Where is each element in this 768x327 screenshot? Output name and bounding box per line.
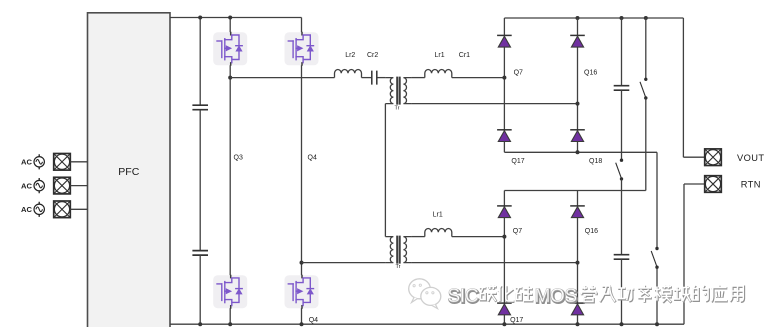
svg-text:VOUT: VOUT xyxy=(737,153,764,163)
capacitor C1 xyxy=(192,105,208,110)
wire VOUT column xyxy=(682,18,684,157)
node S3 x bus xyxy=(655,322,659,326)
svg-text:RTN: RTN xyxy=(741,180,761,190)
inductor Lr1 (upper) xyxy=(425,70,452,78)
connector VOUT xyxy=(705,149,722,166)
wire switch col upper xyxy=(645,18,647,79)
wire bridge2 left column xyxy=(503,191,505,325)
AC source V2 xyxy=(34,178,44,193)
wire bottom bus / RTN rail xyxy=(170,323,684,325)
svg-text:SIC: SIC xyxy=(448,286,479,307)
transformer Tr (lower) xyxy=(385,236,411,264)
wire to VOUT connector xyxy=(683,156,704,158)
wire right leg upper xyxy=(301,18,303,33)
svg-text:Cr1: Cr1 xyxy=(459,52,470,59)
node rail1 x cap col xyxy=(620,16,624,20)
transistor Q2 (top-right MOSFET) xyxy=(285,32,319,66)
svg-text:Q18: Q18 xyxy=(589,158,602,165)
inductor Lr2 xyxy=(335,70,362,78)
svg-text:Q3: Q3 xyxy=(234,155,243,162)
wire J3 to PFC xyxy=(70,208,87,210)
switch S1 xyxy=(640,78,648,100)
node right leg bottom xyxy=(300,322,304,326)
node bus cap bottom xyxy=(198,322,202,326)
connector J2 xyxy=(54,177,71,194)
wire left leg mid to Lr2 xyxy=(230,77,334,79)
wire J1 to PFC xyxy=(70,161,87,163)
wire top DC bus xyxy=(170,17,302,19)
diode Q17 xyxy=(497,130,512,142)
svg-text:Q7: Q7 xyxy=(513,228,522,235)
wire right leg lower xyxy=(301,308,303,324)
wire Tr1 primary to Tr2 primary xyxy=(384,104,386,237)
connector J3 xyxy=(54,201,71,218)
AC source V3 xyxy=(34,202,44,217)
svg-text:Tr: Tr xyxy=(395,105,400,111)
svg-text:Q4: Q4 xyxy=(309,317,318,324)
svg-text:MOS: MOS xyxy=(535,286,577,307)
svg-text:Q7: Q7 xyxy=(514,69,523,76)
svg-text:AC: AC xyxy=(21,158,32,167)
wire cap col mid xyxy=(621,90,623,160)
capacitor C2 xyxy=(192,251,208,256)
wire bridge1 rail to S3 xyxy=(656,152,658,248)
svg-text:PFC: PFC xyxy=(118,166,139,178)
wire Tr2 sec bottom to bridge2 xyxy=(411,262,577,264)
wire right leg mid to Tr2 primary bottom xyxy=(302,262,386,264)
wire Lr1 lower to bridge2 xyxy=(452,236,505,238)
wire bridge2 top rail xyxy=(504,190,645,192)
diode Q7 (lower) xyxy=(497,206,512,218)
wire left leg upper xyxy=(229,18,231,33)
transistor Q4 (bottom-right MOSFET) xyxy=(285,275,319,309)
inductor Lr1 (lower) xyxy=(425,229,452,237)
capacitor C4 (bridge2 output) xyxy=(614,255,630,260)
PFC block U1 xyxy=(88,13,171,327)
diode Q18 xyxy=(570,130,585,142)
diode Q18 (lower) xyxy=(570,303,585,315)
wire bridge1 top rail xyxy=(504,17,683,19)
node bus cap top xyxy=(198,16,202,20)
wire right leg middle xyxy=(301,65,303,275)
watermark text: CJK hand-drawn glyphs xyxy=(480,286,744,303)
wire bridge1 left column xyxy=(503,18,505,152)
node bridge2 left x bus xyxy=(502,322,506,326)
svg-text:Lr1: Lr1 xyxy=(433,211,443,218)
wire Lr1 to bridge1 xyxy=(452,77,505,79)
transistor Q3 (bottom-left MOSFET) xyxy=(213,275,247,309)
switch S2 xyxy=(616,159,624,181)
wire left leg middle xyxy=(229,65,231,275)
node left leg top xyxy=(228,16,232,20)
wire bridge1 bottom rail xyxy=(504,151,657,153)
capacitor Cr2 xyxy=(372,71,377,85)
node right leg midpoint xyxy=(300,261,304,265)
svg-text:Q4: Q4 xyxy=(308,155,317,162)
svg-text:Q16: Q16 xyxy=(585,228,598,235)
wire cap col upper xyxy=(621,18,623,86)
wire to RTN connector xyxy=(684,183,705,185)
svg-text:Lr1: Lr1 xyxy=(435,52,445,59)
wire RTN column xyxy=(683,184,685,324)
wire cap col lower xyxy=(621,179,623,254)
svg-text:Q17: Q17 xyxy=(511,158,524,165)
wire S3 to bus xyxy=(656,268,658,325)
svg-text:Q17: Q17 xyxy=(510,317,523,324)
svg-text:Q16: Q16 xyxy=(584,69,597,76)
diode Q7 xyxy=(497,35,512,47)
node bridge1 right mid xyxy=(576,102,580,106)
svg-text:AC: AC xyxy=(21,181,32,190)
node bridge2 right x bus xyxy=(576,322,580,326)
connector RTN xyxy=(705,176,722,193)
watermark logo (WeChat) xyxy=(409,279,441,309)
node left leg bottom xyxy=(228,322,232,326)
wire bus cap column lower xyxy=(199,255,201,324)
node cap col x bus xyxy=(620,322,624,326)
wire bus cap column upper xyxy=(199,18,201,106)
wire Cr2 to Tr1 xyxy=(377,77,385,79)
svg-text:Cr2: Cr2 xyxy=(367,52,378,59)
transistor Q1 (top-left MOSFET) xyxy=(213,32,247,66)
svg-text:Tr: Tr xyxy=(396,264,401,270)
wire J2 to PFC xyxy=(70,185,87,187)
node bridge2 left mid xyxy=(502,235,506,239)
wire cap col bottom xyxy=(621,259,623,324)
capacitor C3 (bridge1 output) xyxy=(614,86,630,91)
node bridge2 right mid xyxy=(576,261,580,265)
wire left leg lower xyxy=(229,308,231,324)
connector J1 xyxy=(54,154,71,171)
svg-text:AC: AC xyxy=(21,205,32,214)
wire Tr1 sec bottom to bridge1 xyxy=(411,103,577,105)
wire bridge2 right column xyxy=(577,191,579,325)
node rail1 x right col xyxy=(576,16,580,20)
node rail1 x switch col xyxy=(644,16,648,20)
switch S3 xyxy=(651,247,659,269)
diode Q16 (lower) xyxy=(570,206,585,218)
wire Lr2 to Cr2 xyxy=(362,77,372,79)
node left leg midpoint xyxy=(228,76,232,80)
diode Q17 (lower) xyxy=(497,303,512,315)
node rail1b x right col xyxy=(576,150,580,154)
wire bridge1 right column xyxy=(577,18,579,152)
diode Q16 xyxy=(570,35,585,47)
transformer Tr (upper) xyxy=(385,77,411,105)
node bridge1 left mid xyxy=(502,76,506,80)
wire Tr2 sec to Lr1 lower xyxy=(411,236,424,238)
AC source V1 xyxy=(34,154,44,169)
wire bus cap column middle xyxy=(199,110,201,251)
wire Tr1 sec to Lr1 xyxy=(411,77,424,79)
svg-text:Lr2: Lr2 xyxy=(345,52,355,59)
wire switch col lower xyxy=(645,98,647,190)
